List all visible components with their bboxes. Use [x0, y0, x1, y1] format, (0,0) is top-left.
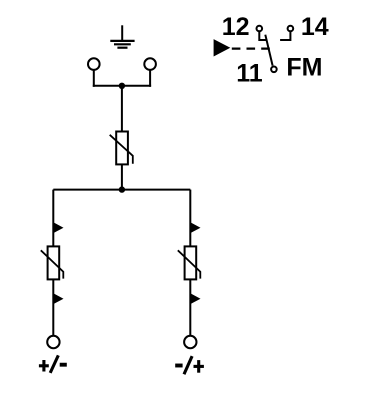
svg-text:FM: FM: [286, 54, 322, 82]
svg-text:14: 14: [301, 13, 329, 41]
svg-text:11: 11: [236, 60, 263, 88]
svg-text:12: 12: [222, 13, 250, 41]
